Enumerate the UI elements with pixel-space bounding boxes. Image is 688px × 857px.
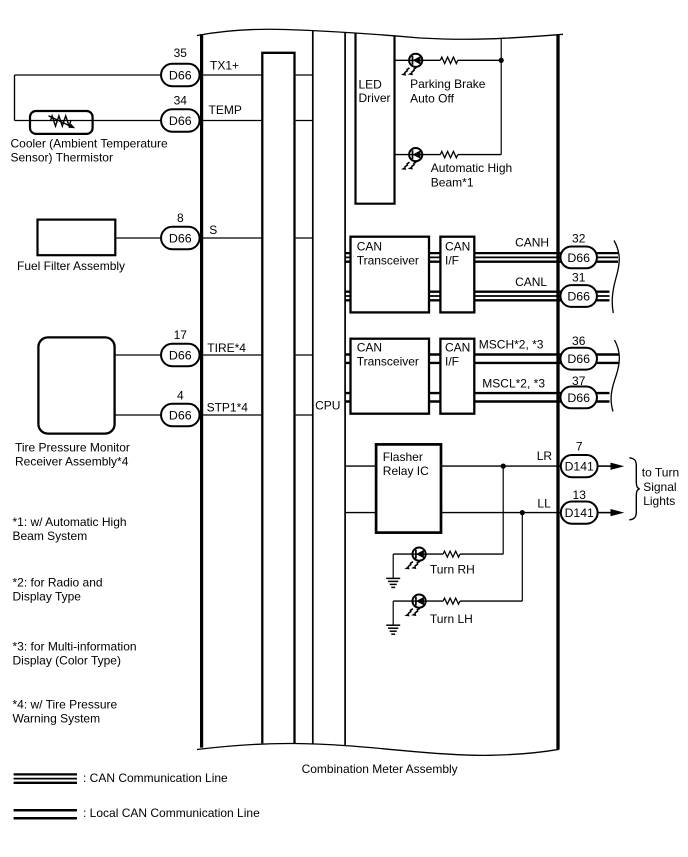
svg-text:LED: LED bbox=[359, 78, 383, 92]
svg-text:Cooler (Ambient Temperature: Cooler (Ambient Temperature bbox=[11, 137, 169, 151]
svg-text:Receiver Assembly*4: Receiver Assembly*4 bbox=[15, 454, 129, 468]
svg-text:I/F: I/F bbox=[445, 355, 459, 369]
svg-text:8: 8 bbox=[177, 211, 184, 225]
svg-text:13: 13 bbox=[573, 488, 587, 502]
svg-text:*3: for Multi-information: *3: for Multi-information bbox=[13, 639, 137, 653]
svg-text:CAN: CAN bbox=[357, 239, 382, 253]
svg-text:Transceiver: Transceiver bbox=[357, 355, 419, 369]
svg-text:Turn RH: Turn RH bbox=[430, 563, 475, 577]
svg-text:to Turn: to Turn bbox=[642, 466, 679, 480]
svg-text:*1: w/ Automatic High: *1: w/ Automatic High bbox=[13, 515, 127, 529]
svg-text:MSCL*2, *3: MSCL*2, *3 bbox=[482, 377, 545, 391]
svg-text:MSCH*2, *3: MSCH*2, *3 bbox=[479, 338, 544, 352]
svg-text:7: 7 bbox=[576, 440, 583, 454]
svg-text:CPU: CPU bbox=[315, 399, 340, 413]
svg-text:36: 36 bbox=[572, 334, 586, 348]
svg-text:Auto Off: Auto Off bbox=[410, 91, 454, 105]
svg-text:S: S bbox=[209, 223, 217, 237]
svg-text:CAN: CAN bbox=[445, 341, 470, 355]
svg-text:CANL: CANL bbox=[515, 275, 547, 289]
svg-text:35: 35 bbox=[174, 46, 188, 60]
svg-text:CAN: CAN bbox=[445, 239, 470, 253]
svg-text:D66: D66 bbox=[567, 391, 590, 405]
svg-text:TIRE*4: TIRE*4 bbox=[207, 341, 246, 355]
svg-text:Display Type: Display Type bbox=[13, 589, 82, 603]
svg-text:I/F: I/F bbox=[445, 253, 459, 267]
svg-text:Turn LH: Turn LH bbox=[430, 612, 473, 626]
svg-text:D66: D66 bbox=[567, 352, 590, 366]
svg-text:STP1*4: STP1*4 bbox=[207, 401, 249, 415]
svg-text:D66: D66 bbox=[169, 68, 192, 82]
svg-text:Lights: Lights bbox=[643, 494, 675, 508]
svg-text:Signal: Signal bbox=[643, 480, 676, 494]
svg-text:D66: D66 bbox=[567, 251, 590, 265]
svg-text:37: 37 bbox=[572, 374, 586, 388]
svg-text:LR: LR bbox=[537, 449, 553, 463]
svg-text:TX1+: TX1+ bbox=[210, 59, 239, 73]
svg-text:TEMP: TEMP bbox=[209, 103, 242, 117]
svg-text:Display (Color Type): Display (Color Type) bbox=[13, 653, 121, 667]
svg-text:: CAN Communication Line: : CAN Communication Line bbox=[83, 771, 228, 785]
svg-text:LL: LL bbox=[537, 497, 551, 511]
svg-text:*2: for Radio and: *2: for Radio and bbox=[13, 575, 103, 589]
svg-text:D141: D141 bbox=[565, 506, 594, 520]
svg-text:Sensor) Thermistor: Sensor) Thermistor bbox=[11, 151, 113, 165]
svg-text:Combination Meter Assembly: Combination Meter Assembly bbox=[302, 762, 458, 776]
svg-text:Warning System: Warning System bbox=[13, 711, 101, 725]
svg-text:D141: D141 bbox=[565, 460, 594, 474]
svg-text:D66: D66 bbox=[169, 231, 192, 245]
svg-text:Beam System: Beam System bbox=[13, 529, 88, 543]
svg-text:32: 32 bbox=[572, 231, 586, 245]
svg-text:D66: D66 bbox=[169, 114, 192, 128]
svg-text:4: 4 bbox=[177, 389, 184, 403]
svg-text:Relay IC: Relay IC bbox=[383, 464, 429, 478]
svg-text:17: 17 bbox=[174, 328, 188, 342]
svg-text:34: 34 bbox=[174, 93, 188, 107]
svg-text:D66: D66 bbox=[169, 408, 192, 422]
svg-text:31: 31 bbox=[572, 270, 586, 284]
svg-text:: Local CAN Communication Line: : Local CAN Communication Line bbox=[83, 806, 260, 820]
svg-text:CAN: CAN bbox=[357, 341, 382, 355]
svg-text:D66: D66 bbox=[567, 289, 590, 303]
svg-text:Tire Pressure Monitor: Tire Pressure Monitor bbox=[15, 440, 130, 454]
svg-text:D66: D66 bbox=[169, 348, 192, 362]
svg-text:CANH: CANH bbox=[515, 235, 549, 249]
svg-text:Parking Brake: Parking Brake bbox=[410, 77, 486, 91]
svg-text:*4: w/ Tire Pressure: *4: w/ Tire Pressure bbox=[13, 697, 118, 711]
svg-text:Driver: Driver bbox=[359, 91, 391, 105]
svg-text:Automatic High: Automatic High bbox=[431, 161, 512, 175]
svg-text:Transceiver: Transceiver bbox=[357, 253, 419, 267]
svg-text:Flasher: Flasher bbox=[383, 450, 423, 464]
svg-text:Fuel Filter Assembly: Fuel Filter Assembly bbox=[17, 259, 125, 273]
svg-text:Beam*1: Beam*1 bbox=[431, 175, 474, 189]
